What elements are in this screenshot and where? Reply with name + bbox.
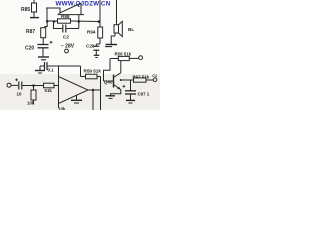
- svg-text:– 28V: – 28V: [61, 44, 75, 50]
- capacitor C28: [93, 44, 100, 58]
- wire amp right edge down through rail: [78, 15, 80, 29]
- svg-text:Q40: Q40: [104, 79, 113, 84]
- capacitor 0.1 branch: [35, 62, 59, 77]
- resistor R input shunt: [31, 86, 36, 105]
- resistor R85: [30, 0, 39, 18]
- node A junction dots on rail: [46, 20, 100, 23]
- svg-text:0.1: 0.1: [48, 68, 55, 73]
- resistor R88: [58, 19, 100, 23]
- speaker BL wire from top: [116, 0, 118, 25]
- capacitor C input (10uF): [15, 78, 43, 89]
- wire emitter to ground: [111, 90, 121, 96]
- svg-text:C20: C20: [25, 46, 34, 52]
- wire top-left horizontal into amp: [46, 8, 60, 14]
- resistor series 51k: [44, 83, 59, 88]
- resistor R59 feedback: [59, 66, 101, 79]
- capacitor C20 (polarized): [38, 41, 53, 57]
- op-amp U1 (cropped triangle top): [58, 3, 85, 15]
- wire rail y21: [47, 20, 58, 22]
- ground under C20: [38, 57, 49, 60]
- terminal circle R97 output: [153, 78, 157, 82]
- op-amp U2 triangle: [59, 77, 89, 109]
- scan background lower band: [0, 74, 160, 110]
- svg-text:C1: C1: [152, 74, 157, 78]
- ground under C97: [126, 100, 135, 103]
- ground under Q40: [106, 96, 116, 99]
- ground under op-amp U2: [71, 96, 82, 104]
- resistor R97: [120, 78, 153, 82]
- resistor R56: [110, 56, 139, 60]
- ground under speaker: [105, 45, 117, 47]
- svg-text:C2: C2: [63, 35, 69, 40]
- svg-text:R59 51k: R59 51k: [84, 69, 102, 74]
- wire op-amp output: [88, 89, 101, 91]
- input terminal circle: [7, 83, 11, 87]
- svg-text:R56 51k: R56 51k: [115, 51, 132, 56]
- terminal circle R56 output: [139, 56, 143, 60]
- resistor R87: [41, 21, 48, 44]
- node B junction dot: [32, 84, 35, 87]
- svg-text:R94: R94: [87, 30, 96, 35]
- svg-text:R85: R85: [21, 7, 30, 13]
- node output junction dot: [92, 89, 95, 92]
- supply terminal circle: [65, 49, 69, 53]
- svg-text:10: 10: [17, 92, 22, 97]
- capacitor C2 branch: [54, 21, 79, 33]
- wire vertical from rail x47: [46, 8, 48, 21]
- wire input: [11, 84, 18, 86]
- speaker BL: [111, 21, 122, 44]
- wire output down: [92, 90, 94, 110]
- svg-text:WWW.QJDZW.CN: WWW.QJDZW.CN: [56, 1, 111, 8]
- svg-text:10k: 10k: [58, 107, 66, 111]
- svg-text:51k: 51k: [45, 88, 53, 93]
- svg-text:C97 1: C97 1: [138, 91, 150, 96]
- svg-text:R87: R87: [26, 29, 35, 35]
- svg-text:BL: BL: [128, 27, 134, 32]
- transistor Q40: [104, 61, 121, 90]
- resistor R94: [98, 0, 103, 44]
- svg-text:R97 51k: R97 51k: [133, 75, 150, 80]
- wire R56 to node: [104, 59, 111, 82]
- wire feedback vertical: [100, 77, 102, 111]
- capacitor C97: [123, 80, 137, 100]
- svg-text:10k: 10k: [27, 101, 35, 106]
